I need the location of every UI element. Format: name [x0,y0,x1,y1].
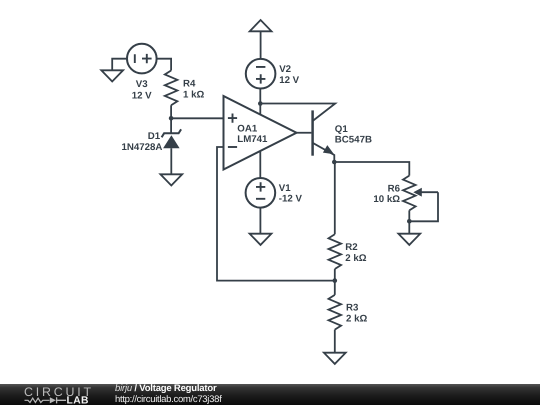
svg-text:BC547B: BC547B [335,134,372,145]
svg-text:OA1: OA1 [237,123,258,134]
svg-text:V1: V1 [279,183,291,194]
svg-text:10 kΩ: 10 kΩ [373,194,400,205]
svg-text:V2: V2 [279,64,291,75]
svg-text:12 V: 12 V [279,75,299,86]
svg-text:1 kΩ: 1 kΩ [183,89,204,100]
svg-text:LM741: LM741 [237,134,268,145]
svg-text:1N4728A: 1N4728A [121,142,162,153]
svg-text:R3: R3 [346,303,359,314]
svg-text:R2: R2 [345,242,357,253]
svg-text:Q1: Q1 [335,124,349,135]
svg-text:R4: R4 [183,79,196,90]
svg-text:D1: D1 [148,131,161,142]
svg-text:R6: R6 [388,184,401,195]
svg-text:12 V: 12 V [132,90,152,101]
svg-text:-12 V: -12 V [279,194,303,205]
svg-text:V3: V3 [136,79,148,90]
svg-text:2 kΩ: 2 kΩ [346,313,367,324]
svg-text:2 kΩ: 2 kΩ [345,253,366,264]
svg-text:LAB: LAB [67,396,89,405]
